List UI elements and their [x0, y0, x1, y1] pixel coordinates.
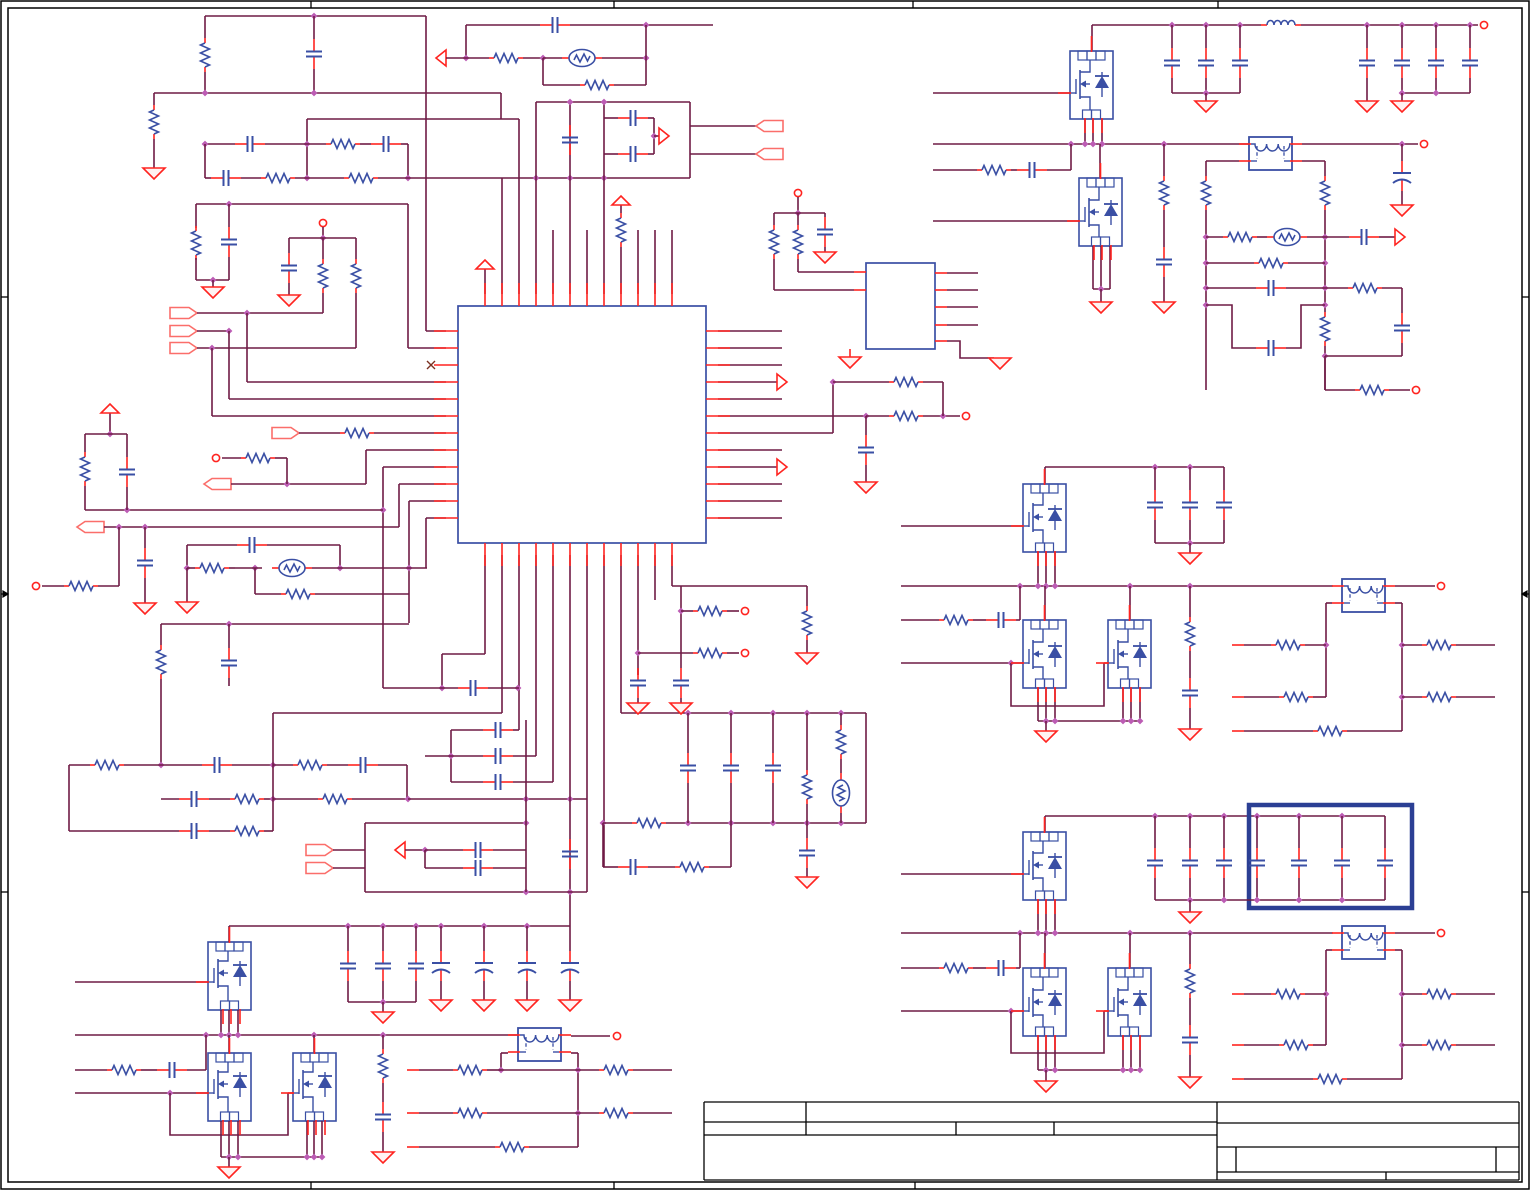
junction (383,510) [380, 507, 387, 514]
wire [484, 277, 486, 294]
wire [1395, 932, 1435, 934]
resistor R49 [1422, 641, 1456, 650]
wire [209, 830, 230, 832]
wire [1223, 467, 1225, 490]
wire [1045, 1070, 1047, 1081]
wire [1324, 346, 1326, 390]
wire [621, 712, 866, 714]
wire [493, 849, 526, 851]
wire [1435, 25, 1437, 48]
junction (221,1035) [218, 1032, 225, 1039]
wire [620, 247, 622, 294]
junction (1325,288) [1322, 285, 1329, 292]
wire [425, 16, 427, 331]
wire [187, 1069, 206, 1071]
ground [1035, 1081, 1057, 1092]
inductor L1 [1261, 21, 1301, 25]
wire [204, 16, 206, 38]
wire [806, 823, 808, 838]
wire [797, 259, 799, 272]
junction (807,713) [804, 710, 811, 717]
wire [500, 93, 502, 119]
junction (1020,933) [1017, 930, 1024, 937]
wire [186, 568, 188, 602]
wire [1469, 78, 1471, 93]
junction (1046,933) [1043, 930, 1050, 937]
capacitor C36 [540, 17, 570, 33]
wire [333, 867, 365, 869]
wire [1122, 688, 1124, 721]
junction (238,1157) [235, 1154, 242, 1161]
wire [488, 687, 519, 689]
wire [286, 458, 288, 484]
junction (731,713) [728, 710, 735, 717]
junction (322,1157) [319, 1154, 326, 1161]
wire [824, 247, 826, 252]
junction (451,756) [448, 753, 455, 760]
wire [518, 119, 520, 294]
wire [1223, 816, 1225, 848]
off-page arrow [1395, 229, 1405, 245]
junction (348,926) [345, 923, 352, 930]
wire [1325, 236, 1349, 238]
wire [407, 204, 409, 348]
wire [419, 1146, 495, 1148]
resistor R17 [293, 761, 327, 770]
transistor Q8 [1108, 968, 1151, 1036]
wire [196, 279, 229, 281]
wire [307, 143, 326, 145]
capacitor C40 [817, 217, 833, 247]
junction (229,204) [226, 201, 233, 208]
wire [161, 798, 179, 800]
wire [680, 586, 682, 668]
ground [1179, 912, 1201, 923]
wire [339, 545, 341, 568]
transistor Q5 [1108, 620, 1151, 688]
wire [419, 1069, 453, 1071]
wire [306, 119, 308, 178]
wire [923, 381, 943, 383]
wire [672, 585, 807, 587]
resistor R36 [1160, 176, 1169, 210]
off-page arrow [659, 128, 669, 144]
wire [806, 868, 808, 877]
wire [569, 102, 571, 178]
junction (408,799) [405, 796, 412, 803]
wire [1326, 949, 1332, 951]
resistor R1 [201, 38, 210, 72]
wire [586, 555, 588, 799]
wire [603, 822, 632, 824]
capacitor C60 [1182, 678, 1198, 708]
junction (518,688) [515, 685, 522, 692]
border zone ticks bottom [310, 1182, 312, 1189]
junction (1140,721) [1137, 718, 1144, 725]
wire [160, 679, 162, 765]
wire [638, 652, 693, 654]
wire [313, 69, 315, 93]
wire [1092, 246, 1094, 289]
wire [84, 486, 86, 510]
terminal [1437, 929, 1444, 936]
wire [382, 1002, 384, 1012]
junction (1402,1045) [1399, 1042, 1406, 1049]
capacitor C15 [458, 680, 488, 696]
junction (229,331) [226, 328, 233, 335]
wire [1099, 144, 1101, 178]
wire [526, 926, 528, 951]
junction (773,713) [770, 710, 777, 717]
wire [197, 330, 229, 332]
wire [552, 230, 554, 294]
wire [865, 465, 867, 482]
wire [364, 823, 366, 892]
wire [687, 783, 689, 823]
IC U1 [458, 306, 706, 543]
junction (841,823) [838, 820, 845, 827]
junction (314,16) [311, 13, 318, 20]
junction (187,568) [184, 565, 191, 572]
wire [1402, 696, 1422, 698]
wire [578, 1069, 599, 1071]
junction (1046,721) [1043, 718, 1050, 725]
transistor Q2 [1079, 178, 1122, 246]
wire [1054, 552, 1056, 586]
wire [1129, 586, 1131, 620]
wire [321, 1121, 323, 1157]
junction (1140,1070) [1137, 1067, 1144, 1074]
wire [1189, 651, 1191, 678]
wire [633, 1112, 672, 1114]
wire [426, 330, 446, 332]
transistor Q11 pins [281, 1038, 325, 1135]
wire [295, 177, 344, 179]
wire [382, 1083, 384, 1102]
junction (731,823) [728, 820, 735, 827]
terminal [1480, 21, 1487, 28]
capacitor C13 [179, 791, 209, 807]
capacitor C68 [986, 960, 1016, 976]
wire [222, 457, 241, 459]
resistor R10 [241, 454, 275, 463]
wire [1189, 933, 1191, 964]
off-page arrow [777, 459, 787, 475]
U1 top pins [485, 283, 672, 306]
wire [289, 237, 356, 239]
wire [1070, 144, 1072, 170]
wire [718, 466, 777, 468]
wire [1037, 688, 1039, 721]
wire [1395, 949, 1402, 951]
wire [228, 1010, 230, 1035]
wire [1366, 78, 1368, 101]
wire [1206, 305, 1256, 348]
wire [603, 102, 605, 294]
junction (1257,816) [1254, 813, 1261, 820]
wire [1163, 277, 1165, 302]
wire [347, 981, 349, 1002]
wire [1130, 688, 1132, 721]
wire [586, 230, 588, 294]
resistor R13 [195, 564, 229, 573]
junction (1130,586) [1127, 583, 1134, 590]
wire [1347, 1078, 1402, 1080]
junction (314,93) [311, 90, 318, 97]
capacitor C16 [483, 722, 513, 738]
wire [654, 555, 656, 600]
capacitor C47 [1394, 48, 1410, 78]
wire [571, 1035, 610, 1037]
transistor Q6 [1023, 832, 1066, 900]
junction (170,1093) [167, 1090, 174, 1097]
wire [327, 764, 348, 766]
wire [365, 450, 367, 484]
junction (1102,144) [1099, 141, 1106, 148]
junction (646,25) [643, 22, 650, 29]
junction (1071,144) [1068, 141, 1075, 148]
capacitor C4 [211, 170, 241, 186]
wire [947, 306, 978, 308]
wire [228, 257, 230, 280]
capacitor C41 [858, 435, 874, 465]
junction (1123,721) [1120, 718, 1127, 725]
ground [430, 1000, 452, 1011]
resistor R21 [632, 819, 666, 828]
wire [1341, 816, 1343, 848]
junction (646,58) [643, 55, 650, 62]
wire [718, 500, 782, 502]
wire [220, 1010, 222, 1035]
wire [1100, 289, 1102, 302]
wire [1401, 93, 1403, 101]
wire [840, 713, 842, 725]
wire [493, 867, 526, 869]
capacitor C31 [408, 951, 424, 981]
wire [365, 891, 587, 893]
wire [451, 729, 483, 731]
capacitor C7 [119, 457, 135, 487]
wire [1456, 1044, 1495, 1046]
junction (273,799) [270, 796, 277, 803]
resistor R54 [1279, 1041, 1313, 1050]
wire [1301, 24, 1478, 26]
wire [419, 1112, 453, 1114]
resistor R11 [81, 452, 90, 486]
capacitor C43 [1164, 48, 1180, 78]
resistor R27 [803, 606, 812, 640]
resistor R50 [1422, 693, 1456, 702]
junction (1325,305) [1322, 302, 1329, 309]
wire [1206, 160, 1239, 162]
wire [153, 139, 155, 168]
wire [1171, 78, 1173, 93]
off-page arrow [395, 842, 405, 858]
wire [569, 981, 571, 1000]
transistor Q1 pins [1058, 36, 1102, 133]
wire [523, 57, 543, 59]
wire [382, 981, 384, 1002]
transistor Q4 pins [1011, 605, 1055, 702]
resistor R28 [617, 213, 626, 247]
wire [299, 432, 340, 434]
resistor R39 [1321, 312, 1330, 346]
wire [865, 416, 867, 435]
wire [654, 135, 659, 137]
junction (688,823) [685, 820, 692, 827]
wire [637, 698, 639, 703]
power flag [476, 260, 494, 277]
wire [1139, 688, 1141, 721]
wire [620, 555, 622, 713]
wire [406, 765, 408, 799]
wire [718, 347, 782, 349]
power flag [101, 404, 119, 421]
wire [1044, 933, 1046, 968]
wire [197, 347, 356, 349]
wire [451, 781, 483, 783]
ground [814, 252, 836, 263]
border arrow right [1522, 591, 1529, 597]
wire [526, 981, 528, 1000]
border zone ticks left [1, 296, 8, 298]
wire [264, 798, 273, 800]
wire [1084, 119, 1086, 144]
polarized capacitor C33 [475, 951, 493, 981]
capacitor C28 [673, 668, 689, 698]
wire [425, 867, 463, 869]
wire [197, 312, 323, 314]
transistor Q8 pins [1096, 953, 1140, 1050]
ground [1391, 205, 1413, 216]
wire [718, 398, 782, 400]
junction (1436,25) [1433, 22, 1440, 29]
junction (255,568) [252, 565, 259, 572]
ground [202, 287, 224, 298]
wire [221, 1156, 322, 1158]
junction (1206,263) [1203, 260, 1210, 267]
wire [501, 555, 503, 713]
wire [442, 653, 485, 655]
wire [352, 798, 408, 800]
wire [973, 619, 986, 621]
wire [487, 1069, 501, 1071]
capacitor C55 [1256, 340, 1286, 356]
wire [1401, 343, 1403, 356]
junction (1299,816) [1296, 813, 1303, 820]
wire [1244, 993, 1271, 995]
capacitor C59 [986, 612, 1016, 628]
wire [1045, 552, 1047, 586]
wire [1325, 389, 1355, 391]
junction (570,892) [567, 889, 574, 896]
junction (1402,93) [1399, 90, 1406, 97]
junction (638,653) [635, 650, 642, 657]
wire [1045, 900, 1047, 933]
wire [1456, 993, 1495, 995]
resistor R34 [889, 378, 923, 387]
wire [1037, 552, 1039, 586]
capacitor C44 [1198, 48, 1214, 78]
wire [355, 293, 357, 348]
no-connect X [427, 361, 435, 369]
wire [513, 729, 519, 731]
wire [1206, 236, 1223, 238]
junction (466,58) [463, 55, 470, 62]
resistor R60 [453, 1066, 487, 1075]
wire [1044, 816, 1046, 832]
junction (1240,25) [1237, 22, 1244, 29]
capacitor C48 [1428, 48, 1444, 78]
wire [273, 798, 318, 800]
wire [1223, 878, 1225, 900]
port port8 [306, 863, 333, 874]
wire [718, 432, 833, 434]
wire [500, 1053, 502, 1070]
wire [312, 567, 427, 569]
wire [1435, 78, 1437, 93]
resistor R43 [1355, 386, 1389, 395]
junction (1206,288) [1203, 285, 1210, 292]
wire [264, 830, 273, 832]
capacitor C8 [137, 548, 153, 578]
capacitor C23 [680, 753, 696, 783]
wire [187, 544, 237, 546]
wire [378, 177, 690, 179]
wire [205, 143, 235, 145]
wire [228, 204, 230, 227]
ground [1179, 1077, 1201, 1088]
wire [229, 398, 446, 400]
capacitor C26 [799, 838, 815, 868]
wire [671, 230, 673, 294]
wire [1109, 246, 1111, 289]
capacitor C50 [1156, 247, 1172, 277]
capacitor C12 [348, 757, 378, 773]
resistor R7 [319, 259, 328, 293]
wire [1011, 169, 1017, 171]
wire [1205, 78, 1207, 93]
wire [307, 118, 519, 120]
junction (536,178) [533, 175, 540, 182]
wire [378, 764, 407, 766]
wire [1189, 878, 1191, 900]
resistor R19 [318, 795, 352, 804]
wire [1324, 356, 1326, 390]
resistor R38 [1321, 176, 1330, 210]
wire [901, 967, 939, 969]
wire [1171, 25, 1173, 48]
wire [1011, 1011, 1104, 1053]
wire [901, 1010, 1023, 1012]
wire [273, 712, 502, 714]
border arrow left [1, 591, 8, 597]
junction (307,144) [304, 141, 311, 148]
wire [85, 509, 383, 511]
wire [374, 432, 446, 434]
junction (145,527) [142, 524, 149, 531]
ground [278, 295, 300, 306]
wire [1101, 119, 1103, 144]
wire [933, 169, 977, 171]
wire [570, 24, 713, 26]
terminal [1437, 582, 1444, 589]
wire [1154, 816, 1156, 848]
wire [653, 118, 655, 154]
junction (1342,816) [1339, 813, 1346, 820]
wire [187, 567, 195, 569]
wire [1244, 1044, 1279, 1046]
